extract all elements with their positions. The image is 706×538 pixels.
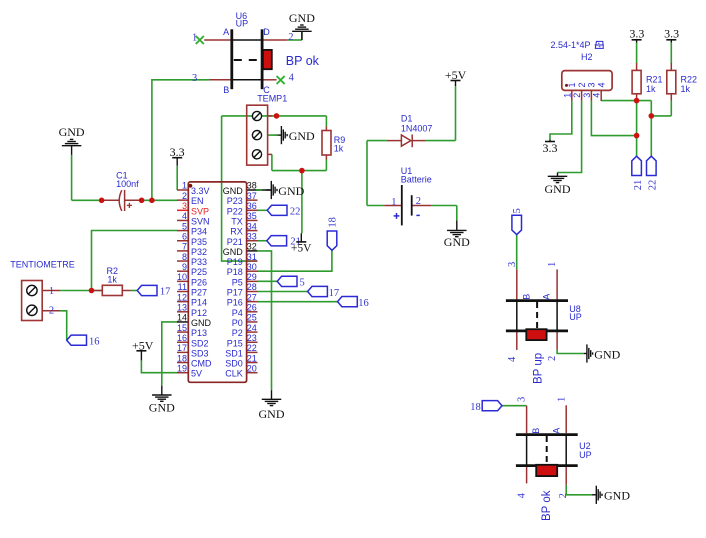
svg-text:1: 1 [567,82,577,87]
svg-text:6: 6 [182,231,187,241]
svg-text:3.3: 3.3 [664,27,679,41]
svg-text:BP ok: BP ok [541,490,553,521]
svg-text:30: 30 [247,262,257,272]
svg-text:1k: 1k [681,84,691,94]
svg-text:16: 16 [177,333,187,343]
svg-text:1: 1 [182,181,187,191]
svg-text:9: 9 [182,262,187,272]
svg-text:3: 3 [517,397,528,402]
svg-text:A: A [542,294,552,300]
svg-text:GND: GND [59,125,85,139]
svg-text:A: A [551,428,561,434]
svg-text:38: 38 [247,181,257,191]
svg-text:P2: P2 [232,328,243,338]
svg-text:UP: UP [236,19,249,29]
svg-text:18: 18 [177,353,187,363]
svg-text:GND: GND [149,401,175,415]
svg-text:SD1: SD1 [225,348,243,358]
svg-text:36: 36 [247,201,257,211]
svg-text:GND: GND [223,247,244,257]
svg-text:14: 14 [177,313,187,323]
svg-text:5: 5 [512,208,523,213]
svg-text:2: 2 [572,93,582,98]
svg-text:GND: GND [191,318,212,328]
svg-text:BP up: BP up [533,353,545,384]
svg-text:32: 32 [247,242,257,252]
svg-text:B: B [223,85,229,95]
svg-text:TENTIOMETRE: TENTIOMETRE [10,260,75,270]
svg-text:4: 4 [507,356,518,362]
svg-text:1: 1 [562,93,572,98]
svg-text:2.54-1*4P: 2.54-1*4P [551,40,591,50]
svg-text:17: 17 [160,287,171,298]
svg-text:2: 2 [288,32,293,43]
svg-text:P12: P12 [191,308,207,318]
svg-text:4: 4 [592,93,602,98]
svg-text:35: 35 [247,211,257,221]
svg-text:TEMP1: TEMP1 [257,93,287,103]
svg-text:RX: RX [230,227,243,237]
svg-text:2: 2 [416,196,421,207]
svg-text:20: 20 [247,363,257,373]
svg-text:4: 4 [517,492,528,498]
svg-text:D1: D1 [401,114,413,124]
svg-text:24: 24 [247,323,257,333]
svg-text:5V: 5V [191,369,202,379]
svg-text:19: 19 [177,363,187,373]
svg-text:1: 1 [192,32,197,43]
svg-text:26: 26 [247,303,257,313]
svg-text:13: 13 [177,303,187,313]
svg-text:2: 2 [558,493,569,498]
svg-text:UP: UP [569,312,582,322]
svg-text:P19: P19 [227,257,243,267]
svg-text:16: 16 [89,337,100,348]
svg-text:3.3: 3.3 [629,27,644,41]
svg-text:SVP: SVP [191,206,209,216]
svg-text:GND: GND [289,129,315,143]
svg-text:CMD: CMD [191,359,212,369]
svg-text:27: 27 [247,292,257,302]
svg-text:100nf: 100nf [116,179,139,189]
svg-text:P0: P0 [232,318,243,328]
svg-text:P27: P27 [191,288,207,298]
svg-text:18: 18 [327,217,338,228]
svg-text:2: 2 [577,82,587,87]
svg-text:3.3: 3.3 [543,141,558,155]
svg-text:P23: P23 [227,196,243,206]
svg-text:2: 2 [547,356,558,361]
svg-text:1k: 1k [334,144,344,154]
svg-text:P21: P21 [227,237,243,247]
svg-text:P17: P17 [227,288,243,298]
svg-text:3: 3 [182,201,187,211]
svg-text:2: 2 [182,191,187,201]
svg-text:29: 29 [247,272,257,282]
svg-text:22: 22 [648,180,659,191]
svg-text:4: 4 [182,211,187,221]
svg-text:37: 37 [247,191,257,201]
svg-text:3: 3 [507,262,518,267]
svg-text:P14: P14 [191,298,207,308]
svg-text:GND: GND [594,347,620,361]
svg-text:4: 4 [597,82,607,87]
svg-text:16: 16 [358,298,369,309]
svg-text:GND: GND [278,184,304,198]
svg-text:GND: GND [223,186,244,196]
svg-text:GND: GND [259,407,285,421]
svg-text:8: 8 [182,252,187,262]
svg-text:CLK: CLK [225,369,243,379]
svg-text:28: 28 [247,282,257,292]
svg-text:1: 1 [49,286,54,297]
svg-text:GND: GND [545,182,571,196]
svg-text:25: 25 [247,313,257,323]
svg-text:GND: GND [604,489,630,503]
svg-text:1: 1 [556,397,567,402]
svg-text:22: 22 [247,343,257,353]
svg-text:P33: P33 [191,257,207,267]
svg-text:BP ok: BP ok [286,54,320,68]
svg-text:GND: GND [444,235,470,249]
svg-text:D: D [263,27,270,37]
svg-text:B: B [521,294,531,300]
svg-text:17: 17 [177,343,187,353]
svg-text:P26: P26 [191,277,207,287]
svg-text:P34: P34 [191,227,207,237]
svg-text:1k: 1k [646,84,656,94]
svg-text:33: 33 [247,231,257,241]
svg-text:22: 22 [290,206,301,217]
svg-text:12: 12 [177,292,187,302]
svg-text:SVN: SVN [191,216,210,226]
svg-text:21: 21 [633,180,644,191]
svg-text:23: 23 [247,333,257,343]
svg-text:4: 4 [289,72,295,83]
svg-text:P4: P4 [232,308,243,318]
svg-text:P15: P15 [227,338,243,348]
svg-text:15: 15 [177,323,187,333]
svg-text:P25: P25 [191,267,207,277]
svg-text:3: 3 [192,73,197,84]
svg-text:3: 3 [587,82,597,87]
svg-text:+5V: +5V [291,243,312,255]
svg-text:7: 7 [182,242,187,252]
svg-text:TX: TX [231,216,243,226]
svg-text:P5: P5 [232,277,243,287]
svg-text:17: 17 [329,288,340,299]
svg-text:R21: R21 [646,74,663,84]
svg-text:SD3: SD3 [191,348,209,358]
svg-text:SD0: SD0 [225,359,243,369]
svg-text:EN: EN [191,196,204,206]
svg-text:P13: P13 [191,328,207,338]
svg-text:R22: R22 [681,74,698,84]
svg-text:H2: H2 [581,52,593,62]
svg-text:3: 3 [582,93,592,98]
svg-text:P16: P16 [227,298,243,308]
svg-text:2: 2 [49,306,54,317]
svg-text:1k: 1k [107,274,117,284]
svg-text:C: C [263,85,270,95]
svg-text:34: 34 [247,221,257,231]
svg-text:P32: P32 [191,247,207,257]
svg-text:5: 5 [300,277,305,288]
svg-text:A: A [223,27,229,37]
svg-text:P35: P35 [191,237,207,247]
svg-text:1N4007: 1N4007 [401,123,433,133]
svg-text:SD2: SD2 [191,338,209,348]
svg-text:31: 31 [247,252,257,262]
svg-text:3.3V: 3.3V [191,186,210,196]
svg-text:B: B [531,428,541,434]
svg-text:1: 1 [391,197,396,208]
svg-text:GND: GND [289,11,315,25]
svg-text:1: 1 [547,262,558,267]
svg-text:5: 5 [182,221,187,231]
svg-text:P18: P18 [227,267,243,277]
svg-text:10: 10 [177,272,187,282]
svg-text:21: 21 [247,353,257,363]
svg-text:P22: P22 [227,206,243,216]
svg-text:Batterie: Batterie [401,174,432,184]
svg-text:11: 11 [178,282,187,292]
svg-text:18: 18 [470,402,481,413]
svg-text:UP: UP [579,450,592,460]
